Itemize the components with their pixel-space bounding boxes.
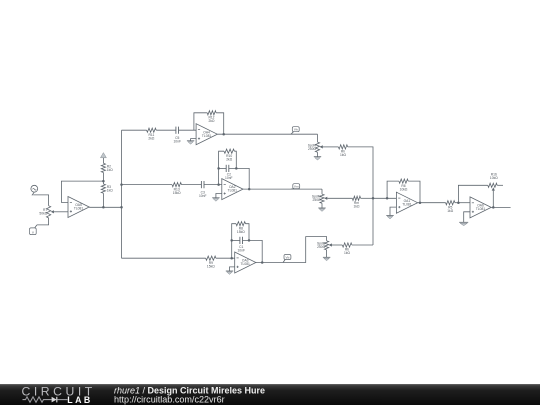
wire [229,168,249,189]
wire [352,244,373,246]
capacitor C2 [225,165,233,180]
node Vb flag [283,255,291,263]
resistor R13 [172,183,182,196]
wire OA3 output [256,237,327,263]
junction [248,239,251,242]
wire bottom branch input [122,257,206,259]
svg-text:TL081: TL081 [402,202,412,206]
junction summing bus [372,197,375,200]
wire wiper [323,146,339,148]
wire ground stub OA4 [191,139,197,141]
wire to summing bus [348,147,373,245]
resistor R10 [224,149,234,161]
svg-text:250Ω: 250Ω [313,198,322,202]
wire ground stub OA1 [390,207,396,215]
wire feedback loop [387,181,399,198]
ground [212,198,219,201]
junction [230,257,233,260]
wire [234,151,236,168]
resistor R8 [236,222,246,234]
svg-text:250Ω: 250Ω [308,147,317,151]
junction [217,183,220,186]
footer bar [0,384,540,405]
ground [386,216,393,219]
wire [317,152,319,157]
junction [492,206,495,209]
svg-text:10nF: 10nF [225,176,233,180]
svg-text:1kΩ: 1kΩ [107,168,113,172]
ground [318,208,325,211]
junction [248,188,251,191]
junction [120,183,123,186]
resistor Rb [342,243,352,255]
svg-text:LAB: LAB [67,395,92,405]
svg-text:TL081: TL081 [228,189,238,193]
resistor R2 [101,163,113,172]
svg-text:50kΩ: 50kΩ [39,212,47,216]
op-amp OA6 [470,197,491,218]
op-amp OA1 [396,192,417,213]
wire [326,250,328,257]
ground [314,157,321,160]
logo diode [52,397,57,403]
wire wiper to op-amp [54,211,68,213]
wire OA5 output to bus [89,206,121,208]
wire output [491,206,510,208]
ground [187,141,194,144]
ground [226,271,233,274]
wire [102,173,104,185]
node Vm flag [291,184,300,189]
op-amp OA5 [68,197,89,218]
wire wiper down [492,191,494,208]
wire feedback to pot R16 [458,185,487,202]
svg-text:15kΩ: 15kΩ [173,191,181,195]
svg-text:TL081: TL081 [241,262,251,266]
svg-text:2kΩ: 2kΩ [148,137,154,141]
resistor R3 [101,184,113,193]
wire [179,129,197,131]
wire ground stub OA2 [216,194,222,198]
junction [419,201,422,204]
svg-text:2kΩ: 2kΩ [226,157,232,161]
wire cap row [232,239,240,241]
wire [204,184,222,186]
svg-text:1kΩ: 1kΩ [447,209,453,213]
svg-text:http://circuitlab.com/c22vr6r: http://circuitlab.com/c22vr6r [114,394,225,404]
wire wiper [332,244,342,246]
wire ground stub OA3 [230,267,235,271]
potentiometer SpdB [317,241,332,250]
node VG terminal [30,225,37,235]
resistor R12 [207,111,216,123]
wire feedback R12 loop [194,113,207,130]
op-amp OA4 [196,124,217,145]
junction [235,167,238,170]
svg-text:10nF: 10nF [199,194,207,198]
logo resistor zigzag [23,397,52,402]
wire OA2 output [243,188,322,190]
junction [222,133,225,136]
svg-text:Vm: Vm [294,185,299,189]
junction [457,201,460,204]
wire [317,134,319,142]
potentiometer SpdM [312,194,327,203]
wire [182,184,202,186]
wire OA4 output [217,133,317,135]
wire [156,129,176,131]
wire cap row [219,167,227,169]
wire [246,224,250,241]
svg-text:2kΩ: 2kΩ [209,119,215,123]
svg-text:TL081: TL081 [74,207,84,211]
wire top branch input [122,129,147,131]
ground [459,222,468,225]
junction [261,261,264,264]
resistor Rh [338,145,347,157]
svg-text:15kΩ: 15kΩ [207,265,215,269]
svg-text:1kΩ: 1kΩ [344,251,350,255]
potentiometer R16 [488,173,503,191]
wire feedback OA5 [61,181,103,202]
svg-text:1kΩ: 1kΩ [107,189,113,193]
capacitor C5 [173,127,181,144]
wire ground stub OA6 [464,212,470,223]
junction [217,167,220,170]
wire wiper [327,197,352,199]
op-amp OA3 [235,252,256,273]
svg-text:1kΩ: 1kΩ [354,205,360,209]
wire summing input [373,197,396,199]
resistor R5 [446,201,455,213]
wire [361,197,373,199]
svg-text:TL081: TL081 [476,207,486,211]
svg-text:15kΩ: 15kΩ [237,230,245,234]
ground [323,257,330,260]
capacitor C3 [199,181,207,198]
wire [102,193,104,207]
wire [321,189,323,194]
junction [386,197,389,200]
wire feedback vertical [232,224,236,259]
resistor Rm [352,196,360,208]
power arrow V+ [100,153,106,164]
capacitor C1 [237,237,245,253]
node Vh flag [291,127,299,135]
svg-text:10kΩ: 10kΩ [400,187,408,191]
junction [230,239,233,242]
svg-text:TL081: TL081 [202,134,212,138]
wire [321,203,323,208]
svg-text:1kΩ: 1kΩ [340,153,346,157]
wire input bus [121,130,123,258]
junction [102,180,105,183]
svg-text:10nF: 10nF [237,248,245,252]
wire [408,181,420,203]
wire middle branch input [122,184,173,186]
resistor R6 [399,179,408,191]
wire [216,113,224,134]
wire pot bottom to VG [37,218,49,225]
wire [243,240,263,262]
resistor R9 [206,256,216,268]
resistor R11 [147,128,157,141]
potentiometer SpdH [308,142,323,152]
svg-text:Vb: Vb [286,255,290,259]
wire [455,202,470,204]
wire [33,195,48,206]
svg-text:Vh: Vh [294,128,298,132]
wire feedback vertical [219,151,224,184]
wire OA1 output [418,202,446,204]
svg-text:10nF: 10nF [173,140,181,144]
junction [102,206,105,209]
wire [216,257,235,259]
svg-text:250Ω: 250Ω [317,245,326,249]
op-amp OA2 [222,179,243,200]
potentiometer R7 input [39,206,53,218]
svg-text:10kΩ: 10kΩ [490,176,498,180]
node VIN terminal [31,185,38,195]
junction [120,206,123,209]
